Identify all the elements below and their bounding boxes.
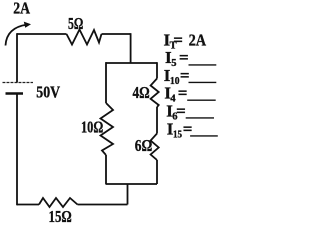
battery B1 short plate [6, 92, 24, 95]
wire parallel box bottom edge [106, 183, 158, 185]
wire right branch middle [156, 107, 158, 134]
label I_6 = [166, 101, 214, 122]
wire parallel box top edge [106, 62, 158, 64]
resistor R2 10ohm [101, 103, 114, 155]
svg-text:6Ω: 6Ω [135, 136, 153, 155]
resistor R1 5ohm [67, 30, 102, 45]
svg-text:2A: 2A [189, 31, 207, 50]
svg-text:=: = [176, 101, 186, 120]
wire left branch upper [105, 62, 107, 103]
battery B1 long plate [3, 82, 34, 84]
svg-text:4Ω: 4Ω [133, 83, 150, 102]
svg-text:50V: 50V [36, 83, 60, 102]
svg-text:10Ω: 10Ω [81, 118, 103, 137]
wire left branch lower [105, 155, 107, 184]
label I_T = 2A [164, 31, 207, 52]
wire top right [102, 33, 131, 35]
wire feed down to bottom wire [127, 184, 129, 205]
svg-text:15Ω: 15Ω [49, 207, 72, 226]
svg-text:=: = [180, 66, 190, 85]
current arrow [6, 25, 28, 46]
label I_5 = [165, 48, 216, 69]
wire right branch lower [156, 160, 158, 184]
svg-text:=: = [173, 31, 183, 50]
svg-text:5Ω: 5Ω [68, 14, 83, 33]
wire feed down to parallel section [130, 33, 132, 63]
svg-text:2A: 2A [13, 0, 30, 18]
svg-text:=: = [178, 84, 188, 103]
resistor R4 6ohm [151, 134, 159, 161]
label I_15 = [167, 119, 218, 140]
wire right branch upper [156, 62, 158, 78]
svg-text:=: = [179, 48, 189, 67]
wire bottom right [78, 204, 128, 206]
wire bottom left [17, 204, 39, 206]
wire left side upper [16, 33, 18, 82]
wire left side lower [16, 94, 18, 206]
resistor R3 4ohm [151, 79, 159, 108]
wire top [17, 33, 67, 35]
resistor R5 15ohm [39, 198, 78, 207]
label I_10 = [164, 66, 217, 87]
label I_4 = [164, 84, 215, 105]
svg-text:5: 5 [171, 58, 176, 69]
svg-text:15: 15 [173, 129, 182, 140]
